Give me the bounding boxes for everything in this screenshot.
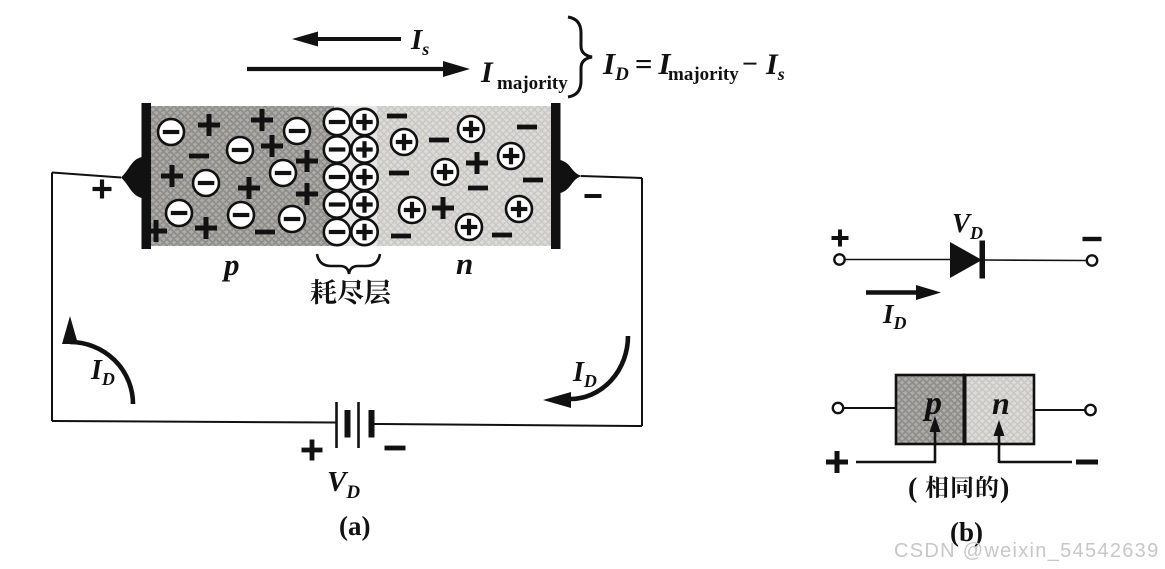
depletion region band xyxy=(334,106,377,246)
wire: left lead of pn block xyxy=(843,407,896,409)
arrow I_D (diode current, points right) xyxy=(866,285,941,300)
label + (battery positive) xyxy=(302,448,323,453)
arrow pointing to n block xyxy=(994,420,1005,463)
node: cathode terminal xyxy=(1087,255,1097,265)
n-type semiconductor region xyxy=(377,106,552,246)
wire: top-right horizontal from cathode contact xyxy=(581,176,642,178)
p block xyxy=(896,375,964,444)
wire: anode lead xyxy=(845,259,950,261)
node: left terminal of pn block xyxy=(833,403,843,413)
arrow pointing to p block xyxy=(930,416,941,463)
svg-text:n: n xyxy=(456,246,473,281)
wire: right vertical xyxy=(641,178,643,426)
svg-text:CSDN @weixin_54542639: CSDN @weixin_54542639 xyxy=(894,540,1160,562)
p-region minority electrons (minus signs) xyxy=(189,154,275,235)
svg-text:p: p xyxy=(922,385,942,422)
wire: right lead of pn block xyxy=(1034,409,1085,411)
right ohmic contact (cathode plate) xyxy=(551,103,561,249)
label + (applied bias positive) xyxy=(826,460,848,465)
label + (anode polarity) xyxy=(93,187,112,191)
underbrace marking depletion layer xyxy=(317,254,380,274)
svg-text:majority: majority xyxy=(497,73,568,94)
label - (battery negative) xyxy=(385,446,406,451)
label - (diode cathode polarity) xyxy=(1083,237,1102,241)
wire: bias line to p pointer xyxy=(856,461,936,463)
label 耗尽层 (depletion layer) xyxy=(310,279,390,304)
wire: I_s minority-current arrow (points left) xyxy=(292,32,401,47)
wire: cathode lead xyxy=(985,259,1086,262)
svg-text:majority: majority xyxy=(668,64,739,85)
n-region majority electrons (minus signs) xyxy=(387,114,543,239)
wire: bottom-left horizontal to battery positive xyxy=(52,421,336,423)
wire: left vertical xyxy=(51,173,53,422)
depletion layer positive ion column xyxy=(351,109,377,245)
svg-text:(a): (a) xyxy=(339,511,370,541)
diode cathode bar xyxy=(980,241,986,279)
label - (applied bias negative) xyxy=(1076,460,1098,465)
depletion layer negative ion column xyxy=(324,109,350,245)
battery V_D (two cells) xyxy=(337,402,375,448)
node: anode terminal xyxy=(834,254,844,264)
svg-text:p: p xyxy=(221,247,240,282)
n-region minority holes (plus signs) xyxy=(432,152,488,219)
wire: bottom-right horizontal to battery negative xyxy=(374,424,642,426)
p-region acceptor ions (circled minus) xyxy=(158,118,310,232)
label ( 相同的) (same bias) xyxy=(908,473,1009,504)
svg-text:n: n xyxy=(992,385,1010,421)
wire: I_majority majority-current arrow (points right) xyxy=(247,61,470,77)
n block xyxy=(964,375,1034,444)
left ohmic contact (anode plate) xyxy=(142,103,152,249)
equation I_D = I_majority - I_s xyxy=(602,46,785,85)
junction divider xyxy=(963,374,967,445)
node: right terminal of pn block xyxy=(1085,405,1095,415)
label - (cathode polarity) xyxy=(585,194,602,198)
arrow I_D (left, curved, pointing up) xyxy=(70,342,133,404)
n-region donor ions (circled plus) xyxy=(391,116,532,240)
label + (diode anode polarity) xyxy=(832,236,849,240)
wire: bias line from n pointer xyxy=(999,461,1072,463)
svg-text:−: − xyxy=(742,49,758,80)
svg-text:ID=I: ID=I xyxy=(602,46,671,85)
arrow I_D (right, curved, pointing left) xyxy=(570,336,628,399)
wire: top-left horizontal from anode contact xyxy=(52,173,121,178)
p-type semiconductor region xyxy=(150,106,334,246)
brace grouping currents xyxy=(568,17,592,97)
svg-text:): ) xyxy=(1000,473,1009,504)
diode D (triangle) xyxy=(950,242,982,278)
p-region majority holes (plus signs) xyxy=(145,109,318,242)
svg-text:I: I xyxy=(480,56,494,89)
svg-text:(: ( xyxy=(908,473,917,504)
